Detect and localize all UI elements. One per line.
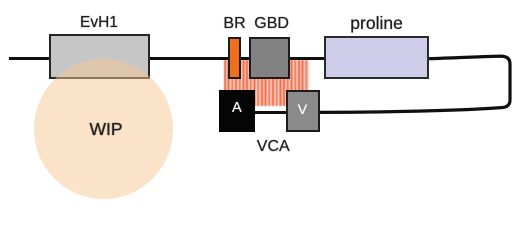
wire backbone N-terminus to proline [9, 57, 429, 60]
label BR [223, 16, 245, 32]
label proline [350, 15, 403, 33]
label V (white) [298, 102, 307, 116]
A box (acidic) [219, 90, 256, 132]
EvH1 domain box [49, 34, 151, 79]
BR box [228, 37, 241, 79]
WIP circle [34, 59, 173, 199]
label WIP [90, 121, 123, 139]
label VCA [257, 139, 290, 155]
proline box [324, 36, 429, 80]
label A (white) [232, 101, 242, 116]
V box (verprolin) [286, 90, 320, 131]
hatched region (autoinhibitory contact, red stripes) [224, 60, 309, 106]
label GBD [254, 16, 289, 32]
label EvH1 [80, 15, 118, 31]
GBD box [249, 37, 290, 79]
wire A to V [250, 111, 290, 114]
